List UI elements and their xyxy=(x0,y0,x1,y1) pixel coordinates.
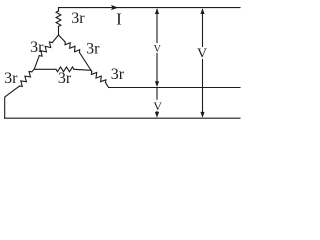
resistor 3r (delta right side) xyxy=(65,42,80,53)
wire delta left-upper segment xyxy=(52,35,58,43)
svg-text:V: V xyxy=(154,44,162,55)
wire resistor to delta apex xyxy=(58,27,60,36)
wire delta bottom right segment xyxy=(74,69,91,70)
svg-text:V: V xyxy=(153,99,162,113)
wire delta bottom left segment xyxy=(34,68,56,70)
wire left branch to bottom rail xyxy=(5,86,20,118)
voltage arrow V1 (top rail to middle rail) xyxy=(155,8,159,87)
wire right branch to middle rail xyxy=(106,83,109,88)
resistor 3r (delta left side) xyxy=(39,42,52,56)
wire middle rail xyxy=(109,87,240,89)
label 3r (delta right) xyxy=(86,41,100,58)
wire delta right-upper segment xyxy=(59,35,66,42)
label V (between middle and bottom rails) xyxy=(153,99,162,113)
resistor 3r (right branch) xyxy=(91,72,106,83)
wire delta right-lower segment xyxy=(80,53,92,71)
label 3r (top resistor) xyxy=(71,10,85,27)
svg-text:3r: 3r xyxy=(4,70,18,87)
current arrow I xyxy=(111,5,119,10)
voltage arrow V3 (top rail to bottom rail, full height) xyxy=(200,8,204,118)
wire left vertex to left branch resistor xyxy=(32,69,34,72)
resistor 3r (top) xyxy=(56,11,61,27)
svg-text:3r: 3r xyxy=(58,70,72,87)
label I (current) xyxy=(116,9,122,28)
svg-text:3r: 3r xyxy=(86,41,100,58)
svg-text:3r: 3r xyxy=(30,39,44,56)
label 3r (left branch) xyxy=(4,70,18,87)
svg-text:3r: 3r xyxy=(111,66,125,83)
wire bottom rail xyxy=(5,117,240,119)
label 3r (delta bottom) xyxy=(58,70,72,87)
svg-text:3r: 3r xyxy=(71,10,85,27)
wire right vertex to right branch resistor xyxy=(90,70,93,71)
voltage arrow V2 (middle rail to bottom rail) xyxy=(155,88,159,118)
label 3r (delta left) xyxy=(30,39,44,56)
svg-text:I: I xyxy=(116,9,122,28)
svg-text:V: V xyxy=(197,47,207,62)
resistor 3r (left branch) xyxy=(20,71,32,86)
label 3r (right branch) xyxy=(111,66,125,83)
label V (full height) xyxy=(197,47,207,62)
label V (between top and middle rails) xyxy=(154,44,162,55)
resistor 3r (delta bottom) xyxy=(56,67,74,72)
wire top rail xyxy=(59,8,241,11)
wire delta left-lower segment xyxy=(34,56,39,70)
